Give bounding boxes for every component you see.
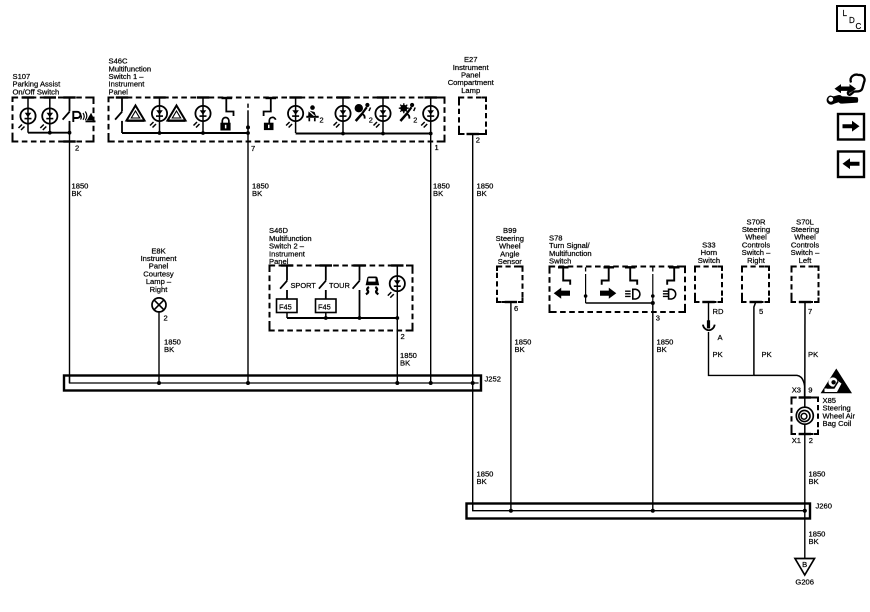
junction J252-S46C7: [246, 381, 250, 385]
svg-text:2: 2: [401, 332, 405, 341]
X85 bottom attach bar: [799, 433, 811, 435]
wire S70L pin7 to X85: [804, 302, 806, 397]
S46C top attach bar: [337, 96, 349, 98]
svg-text:X1: X1: [792, 436, 801, 445]
S46C pin7 stub dash: [247, 104, 249, 108]
S107 LED2: [40, 108, 57, 130]
S46C top attach bar: [116, 96, 128, 98]
S107 top attach bar: [63, 96, 75, 98]
svg-text:7: 7: [251, 144, 255, 153]
S46C airbag icon 2: [399, 103, 418, 124]
coil X85 box: [792, 398, 819, 435]
S46C LED6: [421, 106, 438, 128]
junction J260-B99: [509, 509, 513, 513]
junction J252-E8K: [157, 381, 161, 385]
fuse F45 box 2: [316, 299, 337, 313]
svg-text:RD: RD: [713, 307, 724, 316]
connector label X3 9: [792, 385, 813, 394]
S46C LED2: [194, 106, 211, 128]
svg-text:S70LSteeringWheelControlsSwitc: S70LSteeringWheelControlsSwitch –Left: [791, 217, 820, 264]
S78 right turn arrow: [600, 288, 616, 299]
svg-text:PK: PK: [808, 350, 818, 359]
S46C switch contacts: [115, 98, 122, 134]
S107 LED1: [19, 108, 36, 130]
splice pack J260 outer: [467, 504, 811, 519]
svg-text:1850BK: 1850BK: [477, 182, 494, 199]
S46C LED6 pin1 feed wire: [430, 98, 432, 134]
svg-text:9: 9: [808, 385, 812, 394]
switch S33 box: [695, 267, 722, 303]
S46D F45-1 to common: [286, 313, 288, 319]
S46C LED5 feed wire: [382, 98, 384, 134]
box corner marks S33: [695, 267, 722, 303]
wire S46C pin1 to J252: [430, 134, 432, 384]
wire J260 to ground: [804, 511, 806, 559]
S46C hazard triangle icon 1: [127, 106, 145, 121]
svg-text:S107Parking AssistOn/Off Switc: S107Parking AssistOn/Off Switch: [13, 72, 62, 96]
svg-text:L: L: [843, 9, 848, 18]
junction S78 node1: [584, 294, 588, 298]
S46C unlock pushbutton bracket: [264, 98, 276, 116]
switch S70R box: [742, 267, 769, 303]
svg-text:1850BK: 1850BK: [252, 182, 269, 199]
lamp E27 box: [459, 98, 486, 135]
wire E8K pin2 to J252: [158, 312, 160, 383]
coil X85 clockspring wire-in: [804, 398, 806, 408]
coil X85 clockspring spiral: [796, 407, 813, 424]
svg-text:1850BK: 1850BK: [72, 182, 89, 199]
svg-text:1850BK: 1850BK: [809, 530, 826, 547]
S46D top attach bar: [391, 264, 403, 266]
S46C LED4 feed wire: [342, 98, 344, 134]
S46D common wire: [287, 317, 397, 319]
S46C LED3: [286, 106, 303, 128]
S78 left turn arrow: [554, 288, 570, 299]
svg-text:E8KInstrumentPanelCourtesyLamp: E8KInstrumentPanelCourtesyLamp –Right: [141, 246, 178, 293]
wire B99 pin6 to J260: [510, 302, 512, 511]
S46C top attach bar: [289, 96, 301, 98]
wire S33 to connector: [708, 302, 710, 321]
svg-text:S46CMultifunctionSwitch 1 –Ins: S46CMultifunctionSwitch 1 –InstrumentPan…: [109, 57, 152, 97]
svg-text:7: 7: [808, 307, 812, 316]
S46C padlock locked icon: [220, 117, 230, 130]
svg-text:2: 2: [413, 115, 417, 124]
svg-text:B: B: [802, 560, 807, 569]
nav icon back-arrow box: [838, 152, 864, 178]
S107 top attach bar: [22, 96, 34, 98]
svg-text:PK: PK: [713, 350, 723, 359]
S107 parking-assist P icon: [73, 112, 95, 123]
svg-text:2: 2: [476, 136, 480, 145]
svg-text:2: 2: [320, 115, 324, 124]
svg-text:1850BK: 1850BK: [400, 351, 417, 368]
junction S107 LED2-common: [48, 131, 52, 135]
svg-text:J260: J260: [816, 502, 832, 511]
svg-text:S70RSteeringWheelControlsSwitc: S70RSteeringWheelControlsSwitch –Right: [742, 217, 771, 264]
svg-text:F45: F45: [318, 303, 331, 312]
splice pack J260 inner bus: [473, 504, 807, 511]
inline connector A pin: [707, 320, 710, 328]
svg-text:D: D: [849, 16, 855, 25]
junction S46C pin7 upper: [246, 125, 250, 129]
box corner marks X85: [792, 398, 819, 435]
junction S46D LED-common: [395, 316, 399, 320]
S46D F45-2 to common: [325, 313, 327, 319]
S70R bottom attach bar: [750, 301, 762, 303]
ground G206: [795, 559, 815, 587]
splice pack J252 outer: [64, 376, 481, 391]
S46D switch 1 (SPORT): [280, 266, 287, 300]
S46D top attach bar: [320, 264, 332, 266]
S46C LED1 feed wire: [159, 98, 161, 134]
S46C top attach bar: [197, 96, 209, 98]
svg-text:F45: F45: [279, 303, 292, 312]
svg-text:2: 2: [164, 314, 168, 323]
S46D LED feed wire: [396, 266, 398, 292]
svg-text:B99SteeringWheelAngleSensor: B99SteeringWheelAngleSensor: [496, 226, 524, 266]
switch S107 box: [13, 98, 94, 142]
svg-text:1850BK: 1850BK: [433, 182, 450, 199]
S78 headlamp beam icon 2: [663, 289, 676, 299]
svg-text:TOUR: TOUR: [329, 281, 350, 290]
S46C LED3 feed wire: [295, 98, 297, 134]
junction S46C LED6-common: [429, 132, 433, 136]
svg-text:PK: PK: [762, 350, 772, 359]
svg-text:S78Turn Signal/MultifunctionSw: S78Turn Signal/MultifunctionSwitch: [549, 233, 592, 265]
S46C LED4: [334, 106, 351, 128]
S46C pin7 internal wire: [247, 110, 249, 133]
wire S78 pin3 to J260: [652, 303, 654, 511]
svg-text:1850BK: 1850BK: [515, 338, 532, 355]
svg-text:2: 2: [75, 144, 79, 153]
wire X85 to J260: [804, 434, 806, 511]
svg-text:2: 2: [369, 115, 373, 124]
S46C seat belt icon: [306, 105, 323, 124]
S78 pushbutton bracket 3: [625, 267, 637, 284]
S107 LED1 feed wire: [27, 98, 29, 133]
S46C top attach bar: [377, 96, 389, 98]
S46C LED1: [150, 106, 167, 128]
B99 bottom attach bar: [505, 301, 517, 303]
S107 switch contacts: [63, 98, 70, 134]
junction J252-S46C1: [429, 381, 433, 385]
S46C top attach bar: [153, 96, 165, 98]
splice pack J252 inner bus: [70, 376, 479, 384]
S46C LED5: [374, 106, 391, 128]
svg-text:S33HornSwitch: S33HornSwitch: [698, 241, 720, 265]
S46C lock pushbutton bracket: [222, 98, 234, 116]
S78 internal common wire: [586, 302, 653, 304]
S46C LED2 feed wire: [202, 98, 204, 134]
box corner marks S70L: [792, 267, 819, 303]
wire S107 pin2 to J252: [69, 124, 71, 384]
S46D LED: [388, 276, 405, 298]
fuse F45 box 1: [277, 299, 298, 313]
S78 pushbutton bracket 1: [558, 267, 570, 284]
S78 internal node wire 2: [652, 274, 654, 303]
box corner marks S46C: [109, 98, 445, 142]
svg-text:G206: G206: [795, 578, 814, 587]
S46D switch 3: [353, 266, 360, 319]
S78 pushbutton bracket 4: [667, 267, 679, 284]
S46D top attach bar: [281, 264, 293, 266]
box corner marks S46D: [270, 266, 413, 331]
S70L bottom attach bar: [799, 301, 811, 303]
S46D switch 2 (TOUR): [319, 266, 326, 300]
S78 internal node wire 1: [585, 274, 587, 303]
S46C left common wire: [122, 132, 248, 134]
S107 internal common wire: [28, 132, 70, 134]
svg-text:2: 2: [809, 436, 813, 445]
switch S70L box: [792, 267, 819, 303]
coil X85 wire-out: [804, 424, 806, 434]
junction J252-S46D: [395, 381, 399, 385]
S46C padlock unlocked icon: [264, 117, 276, 130]
S46D traction control icon: [366, 276, 380, 294]
svg-text:S46DMultifunctionSwitch 2 –Ins: S46DMultifunctionSwitch 2 –InstrumentPan…: [269, 226, 312, 266]
junction S46C LED1-common: [158, 131, 162, 135]
wire S33 connector to merge: [709, 332, 754, 375]
junction S46D F45-2: [324, 316, 328, 320]
S107 LED2 feed wire: [49, 98, 51, 133]
box corner marks S107: [13, 98, 94, 142]
S107 top attach bar: [44, 96, 56, 98]
inline connector A socket: [703, 325, 715, 331]
lamp E8K: [152, 298, 166, 312]
switch S78 box: [550, 267, 686, 313]
svg-text:J252: J252: [485, 374, 501, 383]
wire E27 run J252 to J260: [472, 383, 474, 511]
svg-text:3: 3: [656, 314, 660, 323]
E27 bottom attach bar: [467, 133, 479, 135]
wire S70R pin5 down: [754, 302, 756, 375]
X85 top attach bar: [799, 396, 811, 398]
junction S46D switch3: [358, 316, 362, 320]
connector label X1 2: [792, 436, 813, 445]
sensor B99 box: [497, 267, 523, 303]
junction S78 node2: [651, 294, 655, 298]
switch S46D box: [270, 266, 413, 331]
junction J260-S78: [651, 509, 655, 513]
junction S46C pin7-common: [246, 131, 250, 135]
junction J260-X85: [803, 509, 807, 513]
S78 headlamp beam icon 1: [625, 289, 640, 299]
svg-text:5: 5: [759, 307, 763, 316]
svg-text:6: 6: [514, 304, 518, 313]
svg-text:1850BK: 1850BK: [809, 470, 826, 487]
S33 bottom attach bar: [702, 301, 714, 303]
svg-text:A: A: [718, 333, 724, 342]
switch S46C box: [109, 98, 445, 142]
S46C airbag icon 1: [355, 103, 373, 124]
S46C right common wire: [296, 133, 431, 135]
box corner marks E27: [459, 98, 486, 135]
svg-text:C: C: [856, 22, 862, 31]
nav icon forward-arrow box: [838, 114, 864, 140]
svg-text:1850BK: 1850BK: [164, 338, 181, 355]
svg-text:SPORT: SPORT: [291, 281, 317, 290]
svg-text:E27InstrumentPanelCompartmentL: E27InstrumentPanelCompartmentLamp: [448, 55, 495, 95]
S46C hazard triangle icon 2: [168, 106, 186, 121]
wire E27 pin2 to J252: [472, 134, 474, 383]
S78 internal node wire 1 stub dash: [585, 267, 587, 271]
box corner marks S70R: [742, 267, 769, 303]
junction S78 common-pin3: [651, 301, 655, 305]
junction J252-E27: [471, 381, 475, 385]
svg-text:X85SteeringWheel AirBag Coil: X85SteeringWheel AirBag Coil: [823, 396, 856, 428]
junction S46C LED2-common: [201, 131, 205, 135]
wire S46C pin7 to J252: [247, 133, 249, 383]
nav icon adjust-tool: [827, 75, 865, 105]
S78 internal node wire 2 stub dash: [652, 267, 654, 271]
wire merged run to X85: [754, 375, 805, 397]
S46D top attach bar: [353, 264, 365, 266]
nav icon LDC box: [837, 6, 865, 31]
junction S107 switch-common: [68, 131, 72, 135]
box corner marks B99: [497, 267, 523, 303]
svg-text:1: 1: [435, 143, 439, 152]
svg-text:X3: X3: [792, 385, 801, 394]
junction S46C LED4-common: [341, 132, 345, 136]
box corner marks S78: [550, 267, 686, 313]
svg-text:1850BK: 1850BK: [657, 338, 674, 355]
S46C top attach bar: [425, 96, 437, 98]
S78 pushbutton bracket 2: [602, 267, 614, 284]
S107 bottom attach bar: [63, 140, 75, 142]
wire S46D pin2 to J252: [396, 291, 398, 383]
svg-text:1850BK: 1850BK: [477, 470, 494, 487]
airbag warning triangle: [821, 369, 852, 394]
junction S46C LED5-common: [381, 132, 385, 136]
